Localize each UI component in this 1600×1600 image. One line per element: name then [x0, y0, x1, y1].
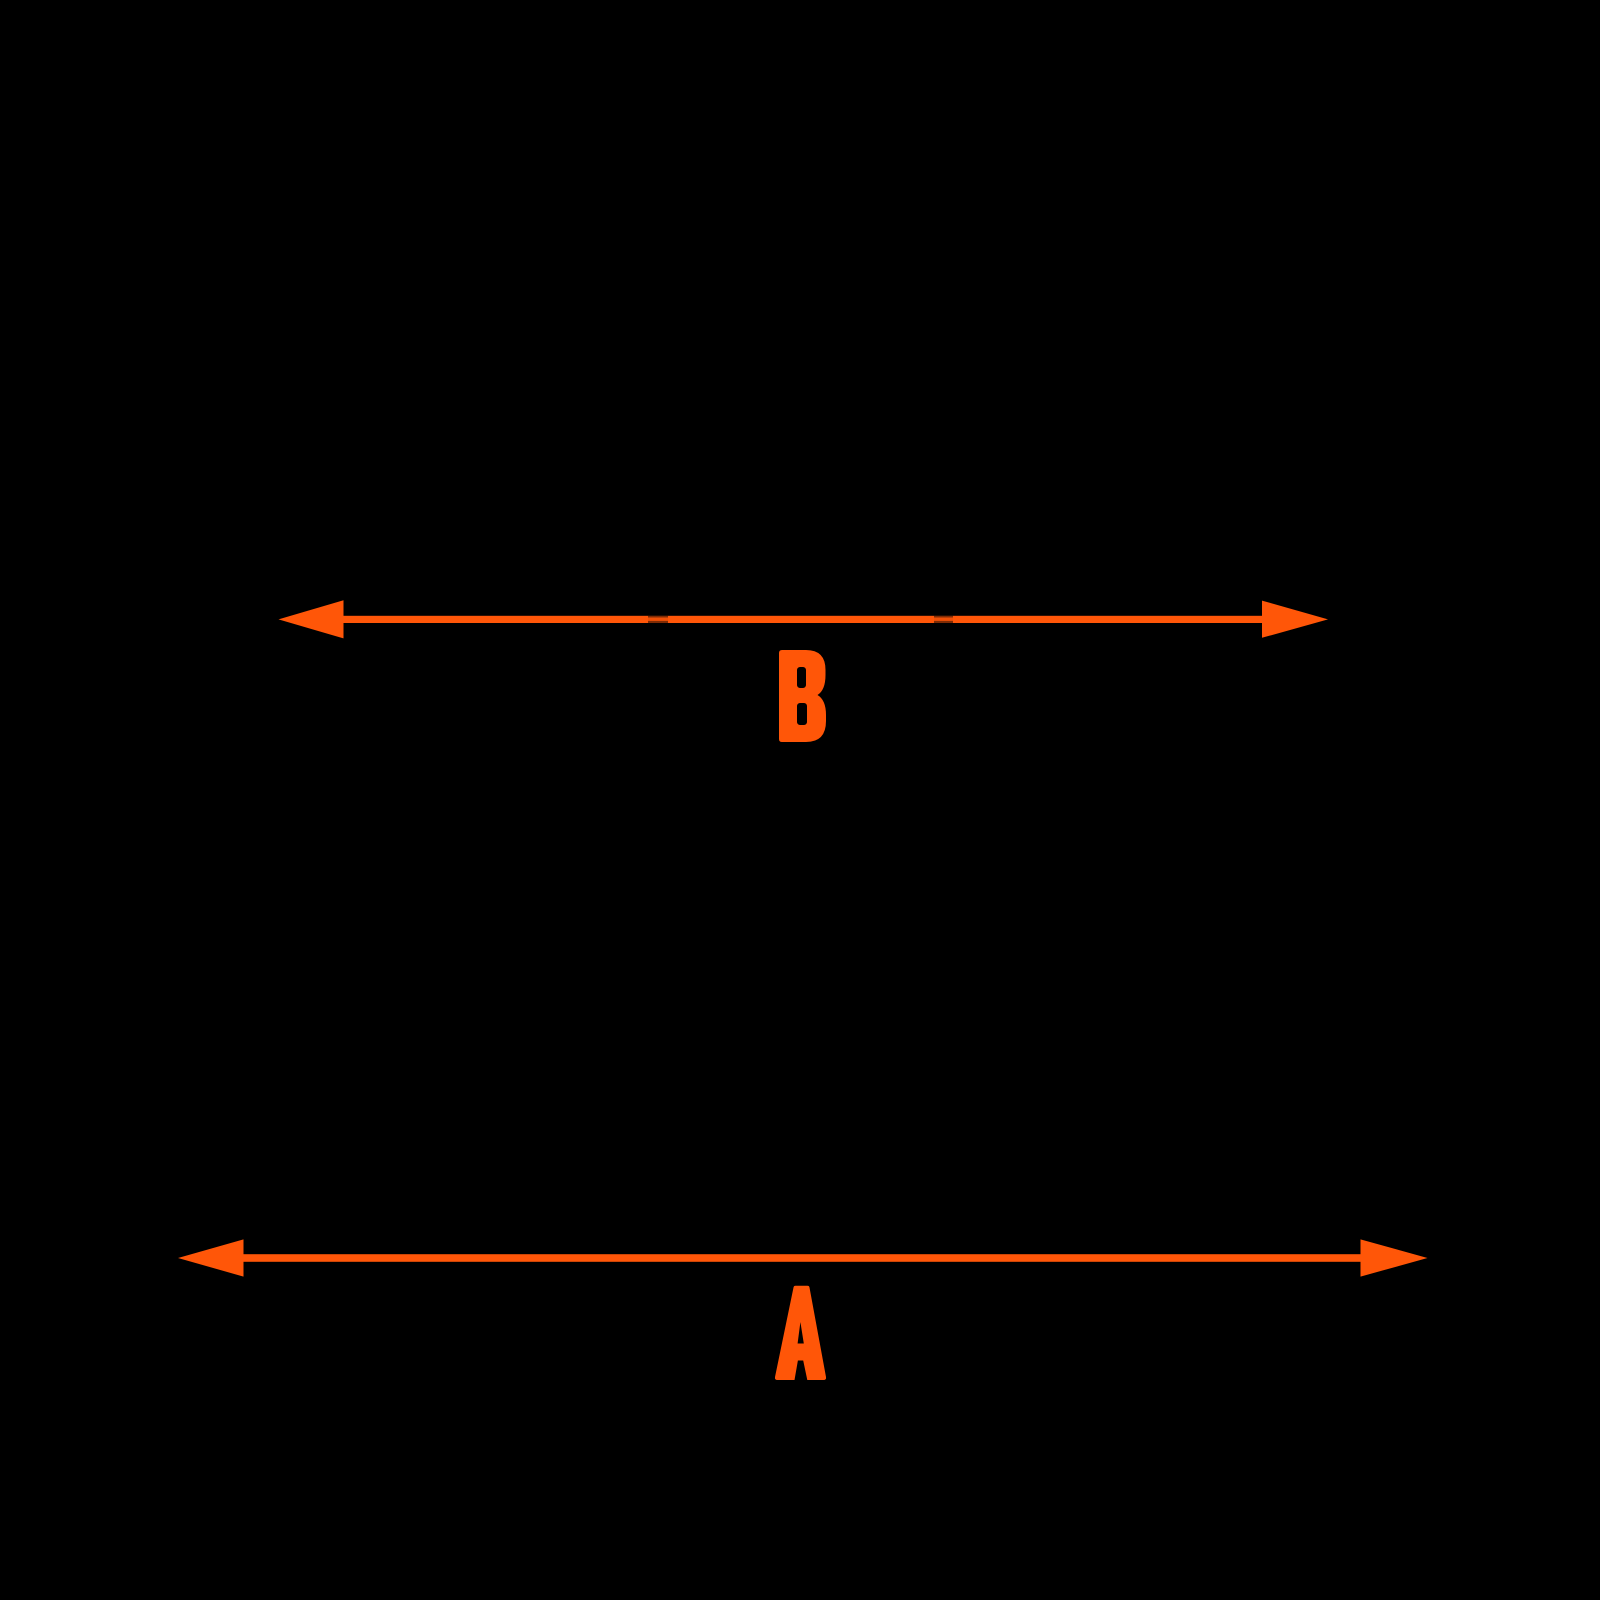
- label B: [779, 650, 826, 742]
- arrow A left head: [178, 1239, 244, 1276]
- label A: [775, 1286, 826, 1380]
- wire: arrow B shaft: [343, 616, 1262, 623]
- arrow B right head: [1262, 601, 1328, 638]
- dimension arrow A (double-headed): [178, 1239, 1428, 1276]
- arrow B left head: [279, 600, 344, 638]
- wire: arrow A shaft: [243, 1254, 1361, 1262]
- dimension arrow B (double-headed): [279, 600, 1329, 638]
- occlusion notch left on arrow B shaft: [648, 616, 668, 623]
- arrow A right head: [1361, 1239, 1428, 1276]
- occlusion notch right on arrow B shaft: [934, 616, 953, 623]
